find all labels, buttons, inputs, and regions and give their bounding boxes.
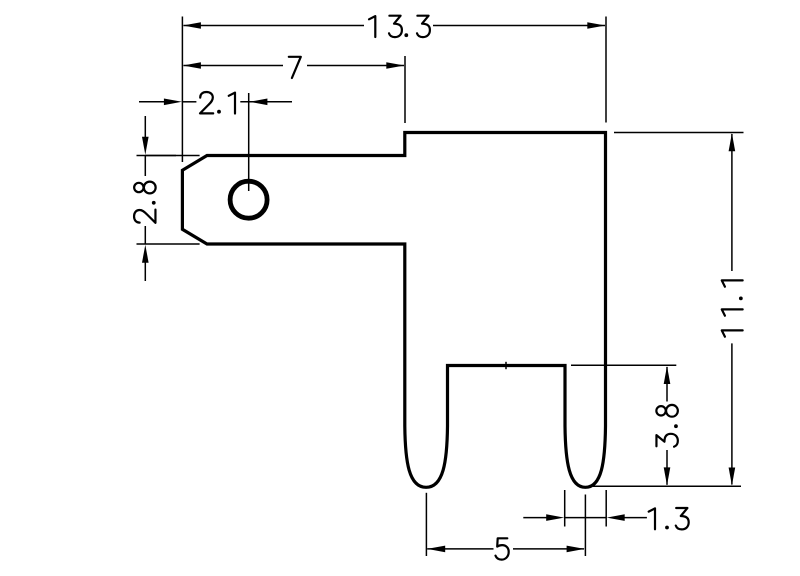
dim 2.8 extension line top bbox=[137, 155, 200, 157]
dim 7 extension line right bbox=[404, 56, 406, 123]
hole in tab bbox=[230, 181, 267, 218]
dim 11.1 label (rotated) bbox=[722, 280, 743, 336]
dim 1.3 extension line left bbox=[564, 490, 566, 527]
dim 2.8 arrow top (points down) bbox=[144, 116, 146, 138]
dim 1.3 extension line right bbox=[605, 490, 607, 527]
dim 1.3 left tail + arrow (points right) bbox=[523, 517, 547, 519]
junction tick on notch top edge bbox=[505, 362, 507, 369]
hole centerline bbox=[248, 93, 250, 191]
part outline: flag terminal profile bbox=[182, 133, 605, 488]
dim 11.1 extension line bottom bbox=[593, 485, 741, 487]
dim 2.1 arrow left (points right at tab tip) bbox=[164, 99, 182, 106]
dim 1.3 right arrow (points left) + tail bbox=[607, 514, 625, 521]
dim 11.1 arrow bottom (points down) bbox=[729, 468, 736, 486]
dim 13.3 extension line left bbox=[181, 17, 183, 163]
dim 3.8 arrow bottom (points down) bbox=[664, 467, 671, 485]
dim 13.3 line bbox=[184, 25, 365, 27]
dim 2.1 arrow right (points left at hole centerline) bbox=[249, 99, 267, 106]
dim 2.1 label bbox=[200, 92, 235, 114]
dim 3.8 extension line top bbox=[571, 364, 676, 366]
dim 3.8 arrow top (points up) bbox=[664, 366, 671, 384]
dim 3.8 line segments bbox=[666, 367, 668, 402]
dim 11.1 arrow top (points up) bbox=[729, 133, 736, 151]
dim 5 extension line left bbox=[425, 493, 427, 556]
dim 11.1 line segments bbox=[731, 134, 733, 271]
dim 7 arrow left bbox=[183, 62, 201, 69]
dim 2.8 arrow bottom (points up) bbox=[144, 262, 146, 281]
dim 1.3 label bbox=[649, 508, 689, 529]
dim 13.3 arrow right bbox=[587, 22, 605, 29]
dim 7 label bbox=[289, 57, 301, 78]
dim 11.1 extension line top bbox=[614, 132, 744, 134]
dim 3.8 label (rotated) bbox=[656, 405, 678, 447]
dim 7 line bbox=[184, 65, 284, 67]
dim 13.3 arrow left bbox=[183, 22, 201, 29]
dim 5 extension line right bbox=[584, 495, 586, 557]
dim 13.3 extension line right bbox=[605, 17, 607, 123]
dim 5 label bbox=[496, 538, 509, 559]
dim 1.3 middle segment bbox=[565, 517, 607, 519]
dim 2.8 extension line bottom bbox=[137, 243, 200, 245]
dim 7 arrow right bbox=[386, 62, 404, 69]
dim 13.3 label bbox=[369, 16, 430, 37]
dim 5 line + arrows bbox=[427, 546, 445, 553]
dim 2.1 left tail bbox=[139, 101, 165, 103]
dim 2.8 line segments bbox=[145, 155, 176, 157]
dim 2.8 label (rotated) bbox=[134, 182, 156, 223]
